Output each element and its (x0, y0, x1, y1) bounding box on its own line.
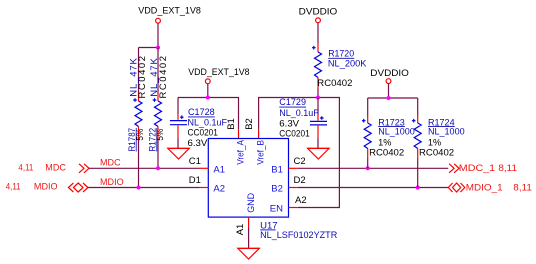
svg-text:D2: D2 (294, 175, 306, 186)
svg-text:NL_1000: NL_1000 (428, 127, 465, 138)
svg-text:GND: GND (246, 193, 257, 213)
refdes C1728 (188, 107, 215, 118)
svg-text:C2: C2 (294, 156, 306, 167)
refdes R1720 (328, 49, 354, 60)
svg-text:NL_0.1uF: NL_0.1uF (279, 108, 319, 119)
svg-text:8,11: 8,11 (498, 163, 517, 174)
refdes R1722 (148, 128, 159, 152)
wire MDC (89, 167, 199, 169)
pin stub GND (248, 217, 250, 227)
svg-text:MDC: MDC (45, 162, 66, 173)
node junction bracket (156, 46, 160, 50)
pin stub B1 (289, 167, 298, 169)
wire power2 stub (207, 84, 209, 98)
svg-text:RC0402: RC0402 (369, 148, 404, 159)
svg-text:A1: A1 (213, 165, 225, 176)
pin stub A1 (199, 167, 208, 169)
refdes R1723 (378, 117, 405, 128)
op-amp U17 (level shifter IC body) (208, 139, 288, 218)
svg-text:B2: B2 (244, 118, 255, 130)
wire GND pin to ground (248, 227, 250, 248)
power DVDDIO (right) (370, 68, 409, 84)
pin stub Vref_A (238, 130, 240, 139)
capacitor C1729 (310, 98, 327, 149)
svg-text:MDC_1: MDC_1 (459, 163, 495, 174)
svg-text:A2: A2 (295, 195, 307, 206)
svg-text:Vref_A: Vref_A (236, 139, 247, 164)
pin stub Vref_B (258, 130, 260, 139)
resistor R1720 (312, 23, 322, 98)
power VDD_EXT_1V8 (middle) (188, 67, 249, 84)
resistor R1722 (153, 48, 162, 169)
svg-text:DVDDIO: DVDDIO (299, 6, 338, 17)
svg-text:VDD_EXT_1V8: VDD_EXT_1V8 (138, 5, 201, 16)
svg-text:4,11: 4,11 (18, 162, 33, 173)
pin stub EN (289, 207, 298, 209)
port MDC_1 (right, output) (449, 163, 517, 174)
resistor R1724 (412, 98, 421, 188)
svg-text:MDIO_1: MDIO_1 (466, 182, 503, 193)
svg-text:D1: D1 (189, 175, 201, 186)
wire MDIO_1 (298, 187, 449, 189)
svg-text:4,11: 4,11 (6, 182, 21, 193)
svg-text:NL_1000: NL_1000 (378, 127, 415, 138)
svg-text:C1728: C1728 (188, 107, 215, 118)
pin stub A2 (199, 187, 208, 189)
power VDD_EXT_1V8 (left) (138, 5, 201, 23)
svg-text:EN: EN (270, 204, 283, 215)
svg-text:5%: 5% (155, 128, 166, 140)
svg-text:RC0402: RC0402 (419, 148, 454, 159)
svg-text:A2: A2 (213, 184, 225, 195)
ground (C1728) (168, 148, 190, 159)
port MDIO (left, bidirectional) (6, 182, 88, 193)
svg-text:MDIO: MDIO (100, 177, 124, 188)
wire MDC_1 (298, 167, 449, 169)
node junction power2 (206, 96, 210, 100)
port MDC (left, output) (18, 162, 89, 173)
node junction C1729 (316, 96, 320, 100)
svg-text:B2: B2 (271, 184, 283, 195)
refdes U17 (260, 220, 277, 231)
node junction R1723/MDC_1 (366, 166, 370, 170)
svg-text:NL_200K: NL_200K (328, 59, 367, 70)
wire Vref_A net (178, 98, 239, 130)
node junction R1787/MDIO (137, 186, 141, 190)
svg-text:5%: 5% (135, 128, 146, 140)
svg-text:C1729: C1729 (279, 97, 306, 108)
svg-text:NL_LSF0102YZTR: NL_LSF0102YZTR (260, 230, 337, 241)
wire left bracket (139, 47, 159, 49)
svg-text:MDIO: MDIO (34, 182, 58, 193)
svg-text:B1: B1 (226, 118, 237, 130)
wire MDIO (88, 187, 199, 189)
resistor R1723 (362, 98, 371, 168)
svg-text:DVDDIO: DVDDIO (370, 68, 409, 79)
refdes R1787 (127, 128, 138, 152)
wire power1 to bracket (157, 23, 159, 47)
svg-text:C1: C1 (189, 156, 201, 167)
node junction R1724/MDIO_1 (416, 186, 420, 190)
node junction R1722/MDC (156, 166, 160, 170)
refdes R1724 (428, 117, 455, 128)
wire right bracket (368, 97, 418, 99)
ground (C1729) (308, 148, 330, 159)
svg-text:6.3V: 6.3V (188, 138, 208, 149)
power DVDDIO (top middle) (299, 6, 338, 22)
resistor R1787 (133, 48, 142, 188)
port MDIO_1 (right, bidirectional) (448, 182, 532, 193)
svg-text:A1: A1 (235, 224, 246, 236)
svg-text:MDC: MDC (100, 157, 121, 168)
pin stub B2 (289, 187, 298, 189)
capacitor C1728 (170, 98, 187, 149)
svg-text:VDD_EXT_1V8: VDD_EXT_1V8 (188, 67, 249, 78)
node junction power4 (387, 96, 391, 100)
ground (U17 GND) (238, 248, 259, 259)
wire power4 stub (388, 84, 390, 99)
wire EN/Vref_B net (259, 98, 340, 208)
svg-text:Vref_B: Vref_B (255, 140, 266, 165)
svg-text:B1: B1 (271, 165, 283, 176)
svg-text:RC0402: RC0402 (317, 78, 352, 89)
refdes C1729 (279, 97, 306, 108)
svg-text:8,11: 8,11 (513, 182, 532, 193)
